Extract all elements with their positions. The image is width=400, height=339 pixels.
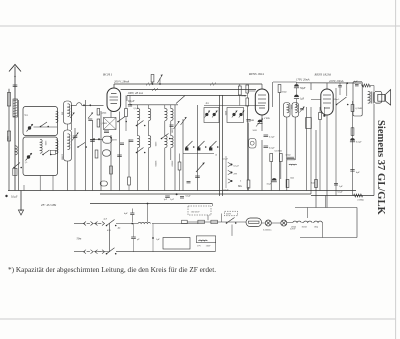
label 50uF bbox=[300, 87, 306, 90]
label 500ohm bbox=[358, 199, 365, 202]
gang box A bbox=[204, 108, 219, 123]
resistor R1 bbox=[7, 93, 10, 107]
switch S17 bbox=[13, 163, 22, 169]
label 1kOhmB bbox=[311, 183, 315, 185]
capacitor C14 bbox=[195, 176, 200, 178]
wire bbox=[116, 223, 138, 225]
label 17V bbox=[197, 246, 201, 248]
svg-text:50kΩ: 50kΩ bbox=[286, 155, 291, 157]
label 4mmF bbox=[206, 103, 210, 105]
label 1uF bbox=[170, 198, 175, 201]
wire bbox=[179, 154, 181, 191]
label 1uFb bbox=[164, 199, 168, 201]
resistor R18 bbox=[319, 113, 322, 120]
shield line bbox=[222, 95, 224, 196]
wire bbox=[306, 107, 308, 191]
wire bbox=[261, 140, 263, 191]
svg-text:0,1μF: 0,1μF bbox=[134, 108, 140, 110]
wire bbox=[197, 105, 199, 191]
connector P1 bbox=[84, 222, 94, 226]
label 2 bbox=[240, 180, 242, 183]
ecap 0,5uF bbox=[350, 138, 355, 142]
trimmer C28 bbox=[88, 113, 93, 121]
wire bbox=[74, 128, 76, 191]
switch S4 bbox=[117, 117, 127, 123]
gang box B bbox=[227, 108, 244, 123]
fuse F2 bbox=[198, 220, 205, 223]
wire bbox=[346, 83, 348, 96]
svg-text:2 mA: 2 mA bbox=[264, 117, 270, 120]
capacitor C1 bbox=[13, 85, 18, 87]
capacitor C29 bbox=[170, 125, 174, 126]
label 5000c bbox=[253, 130, 258, 132]
wire bbox=[170, 121, 172, 136]
dot j3 bbox=[346, 82, 348, 84]
trimmer C4 bbox=[26, 153, 33, 161]
wire bbox=[261, 115, 263, 131]
svg-text:0,5MΩ: 0,5MΩ bbox=[101, 123, 108, 125]
zigzag R11 bbox=[287, 157, 295, 160]
svg-text:*) Kapazität der abgeschirmte: *) Kapazität der abgeschirmten Leitung, … bbox=[8, 265, 216, 274]
svg-text:1kΩ: 1kΩ bbox=[290, 178, 294, 180]
trimmer C12 bbox=[232, 111, 238, 118]
trimmer C33 bbox=[174, 121, 180, 129]
coil L2 bbox=[15, 146, 17, 155]
transformer T4 core bbox=[371, 92, 373, 104]
page rule top bbox=[0, 25, 400, 27]
switch S16 bbox=[161, 134, 171, 140]
label a bbox=[216, 154, 218, 157]
wire bbox=[239, 84, 241, 106]
label 220V bbox=[290, 228, 296, 231]
capacitor C10 bbox=[103, 136, 118, 143]
switch S15 bbox=[136, 148, 146, 154]
trimmer C35 bbox=[300, 107, 305, 113]
svg-text:5000: 5000 bbox=[44, 141, 46, 146]
wire bbox=[300, 237, 357, 239]
switch S14 bbox=[136, 121, 146, 127]
svg-text:17V: 17V bbox=[197, 246, 201, 248]
label 0,1uF bbox=[128, 100, 135, 103]
dot j4 bbox=[110, 137, 112, 139]
wire bbox=[8, 89, 10, 191]
label 0,1B22a bbox=[263, 229, 272, 232]
ecap 1uF bbox=[294, 95, 299, 99]
wire bbox=[70, 105, 72, 130]
value 500L bbox=[6, 136, 8, 140]
resistor R19 bbox=[351, 128, 354, 136]
wire bbox=[152, 224, 154, 253]
wire bbox=[164, 121, 166, 136]
coil can K3 bbox=[249, 139, 257, 149]
label 0,5uF bbox=[356, 141, 362, 144]
label uF bbox=[137, 238, 140, 241]
label 4uF2 bbox=[356, 171, 360, 174]
wire bbox=[92, 120, 94, 191]
dot cap bbox=[323, 107, 325, 117]
wire bbox=[322, 223, 324, 238]
svg-text:(40Ω): (40Ω) bbox=[101, 112, 107, 115]
capacitor C25 bbox=[334, 184, 338, 186]
coil T3a winding bbox=[287, 104, 289, 112]
svg-text:0,25MΩ: 0,25MΩ bbox=[275, 151, 283, 153]
svg-text:(500Ω): (500Ω) bbox=[358, 199, 365, 202]
wire bbox=[373, 104, 375, 196]
svg-text:μF: μF bbox=[137, 238, 140, 241]
wire bbox=[90, 138, 103, 140]
capacitor C22 bbox=[130, 209, 134, 223]
transformer T4 primary bbox=[368, 91, 370, 103]
heater coil La bbox=[293, 221, 301, 222]
hatch bbox=[210, 83, 216, 86]
wire bbox=[207, 215, 209, 220]
coil can K1 bbox=[64, 101, 72, 124]
label 220V 20mA bbox=[329, 79, 344, 84]
svg-text:5000: 5000 bbox=[154, 142, 156, 147]
label 1uF bbox=[156, 238, 160, 241]
wire bbox=[133, 224, 135, 253]
capacitor C18 bbox=[355, 85, 359, 86]
wire bbox=[119, 112, 121, 191]
wire bbox=[23, 185, 25, 191]
resistor R2 bbox=[97, 109, 100, 116]
wire bbox=[183, 153, 214, 155]
label 0,1uF bbox=[11, 196, 18, 199]
coil L5 bbox=[56, 140, 58, 154]
wire bbox=[262, 222, 265, 224]
capacitor C26 bbox=[120, 143, 124, 144]
capacitor C16 bbox=[264, 146, 269, 148]
resistor R12 bbox=[286, 180, 289, 188]
svg-text:170V, 20mA: 170V, 20mA bbox=[296, 79, 310, 82]
coil L12 bbox=[138, 222, 151, 223]
wire bbox=[129, 96, 131, 105]
label 50kOhm bbox=[286, 155, 291, 157]
switch S12 bbox=[106, 248, 117, 255]
label 0,5MOhm2 bbox=[101, 123, 108, 125]
label 1,5 bbox=[25, 162, 29, 164]
wire bbox=[137, 148, 139, 191]
label MG bbox=[238, 185, 242, 188]
page rule right bbox=[395, 0, 397, 339]
coil L8 bbox=[68, 104, 70, 117]
resistor R7 bbox=[246, 98, 249, 106]
lamp E1 bbox=[265, 220, 271, 226]
label 110/125V bbox=[188, 206, 211, 215]
wire bbox=[326, 115, 328, 208]
trimmer C34 bbox=[181, 117, 187, 125]
resistor R9 bbox=[270, 154, 273, 162]
wire bbox=[302, 222, 323, 224]
resistor R22 bbox=[178, 162, 181, 170]
svg-text:20000: 20000 bbox=[61, 154, 63, 161]
choke outline bbox=[353, 82, 362, 117]
bus wire bbox=[8, 190, 356, 192]
wire bbox=[126, 96, 128, 102]
svg-text:2: 2 bbox=[240, 180, 242, 183]
svg-text:RENS 1823d: RENS 1823d bbox=[314, 73, 332, 77]
label 170V bbox=[296, 79, 310, 82]
wire bbox=[34, 126, 58, 128]
svg-text:2μF: 2μF bbox=[104, 219, 108, 221]
label 0,1uF bbox=[234, 166, 240, 168]
resistor R4 bbox=[95, 150, 98, 158]
wire bbox=[148, 105, 150, 109]
wire bbox=[326, 83, 328, 89]
capacitor C20 bbox=[350, 170, 354, 172]
tube U2 envelope bbox=[255, 89, 268, 115]
wire bbox=[270, 162, 272, 191]
label 1uF bbox=[339, 185, 343, 188]
svg-text:4μF: 4μF bbox=[356, 171, 360, 174]
coil L10 bbox=[289, 163, 297, 166]
coil L9 bbox=[68, 134, 70, 150]
wire bbox=[221, 214, 223, 223]
svg-text:Siemens 37 GL/GLK: Siemens 37 GL/GLK bbox=[375, 120, 386, 216]
label 50uF2 bbox=[267, 184, 272, 186]
svg-text:4μμ: 4μμ bbox=[206, 103, 210, 105]
connector P2 bbox=[95, 222, 105, 226]
wire bbox=[247, 90, 255, 92]
wire bbox=[128, 139, 130, 190]
coil T3b2 bbox=[165, 136, 167, 148]
wire bbox=[85, 100, 87, 191]
wire bbox=[100, 111, 102, 191]
label 0,25MOhm bbox=[275, 151, 283, 153]
switch S10 bbox=[336, 97, 349, 105]
svg-text:1μF: 1μF bbox=[300, 98, 305, 101]
wire bbox=[310, 107, 312, 194]
svg-text:1823d: 1823d bbox=[302, 226, 308, 228]
capacitor C23 bbox=[131, 237, 136, 239]
svg-text:220V: 220V bbox=[226, 214, 231, 216]
wire bbox=[246, 93, 248, 191]
tube U3 label RENS 1823d bbox=[314, 73, 332, 77]
triode diag bbox=[104, 118, 117, 130]
resistor R6 bbox=[246, 85, 249, 93]
svg-text:30000: 30000 bbox=[154, 161, 156, 168]
coil can K2 bbox=[64, 130, 72, 161]
svg-text:0,5μF: 0,5μF bbox=[356, 141, 362, 144]
wire bbox=[339, 83, 341, 95]
capacitor C10b bbox=[100, 181, 107, 186]
label 6 bbox=[282, 92, 287, 94]
label 0,5MOhm bbox=[356, 108, 363, 110]
label 470 bbox=[107, 229, 112, 232]
wire bbox=[204, 105, 265, 107]
svg-text:1000: 1000 bbox=[224, 111, 226, 116]
switch S3 bbox=[77, 143, 87, 148]
svg-text:0,1μF: 0,1μF bbox=[234, 166, 240, 168]
wire bbox=[319, 107, 321, 191]
resistor R23 bbox=[306, 118, 312, 129]
heater coil Lb bbox=[304, 221, 312, 222]
trimmer C3 bbox=[27, 124, 34, 132]
capacitor C15 bbox=[264, 135, 269, 137]
rect loop bbox=[163, 238, 190, 250]
capacitor C24 bbox=[246, 120, 250, 122]
svg-text:4μF: 4μF bbox=[124, 212, 128, 215]
label 1kOhm bbox=[290, 178, 294, 180]
wire bbox=[170, 105, 172, 109]
wire bbox=[94, 251, 110, 253]
wire bbox=[152, 82, 154, 84]
wire bbox=[127, 95, 247, 97]
wire bbox=[211, 204, 213, 207]
ecap 50uF bbox=[294, 84, 299, 88]
wire bbox=[280, 162, 282, 180]
wire bbox=[187, 221, 246, 223]
capacitor C7 bbox=[128, 105, 132, 107]
label mp bbox=[25, 115, 29, 117]
svg-text:1824: 1824 bbox=[314, 226, 318, 228]
barretter U4 bbox=[246, 218, 262, 227]
wire bbox=[311, 99, 321, 101]
wire bbox=[130, 104, 178, 106]
wire bbox=[352, 101, 354, 196]
connector P3 bbox=[84, 250, 94, 254]
wire bbox=[121, 89, 256, 91]
wire bbox=[94, 223, 98, 225]
antenna bbox=[9, 65, 21, 80]
wire bbox=[286, 117, 288, 191]
wire bbox=[147, 203, 149, 222]
capacitor C21 bbox=[165, 196, 170, 198]
svg-text:0,5MΩ: 0,5MΩ bbox=[356, 108, 363, 110]
wire bbox=[272, 82, 274, 107]
coil L4 bbox=[40, 139, 42, 153]
tube U1 envelope bbox=[107, 88, 121, 112]
svg-text:0,1μF: 0,1μF bbox=[223, 159, 229, 161]
svg-text:30000: 30000 bbox=[170, 161, 172, 168]
svg-text:0,1μF: 0,1μF bbox=[128, 100, 135, 103]
trimmer C13b bbox=[196, 163, 205, 173]
wire bbox=[164, 105, 166, 109]
wire bbox=[222, 225, 232, 236]
coil T3b winding bbox=[295, 104, 297, 112]
svg-text:50μF: 50μF bbox=[300, 87, 306, 90]
zigzag R13 bbox=[362, 84, 371, 87]
lamp E2 bbox=[281, 220, 287, 226]
wire bbox=[164, 148, 166, 191]
dot j2 bbox=[152, 237, 154, 239]
tube U1 label BCH 1 bbox=[103, 73, 113, 77]
value 1000 bbox=[290, 105, 292, 110]
speaker LS coil box bbox=[374, 91, 382, 103]
trimmer C11b bbox=[212, 111, 218, 118]
label 7 bbox=[242, 96, 247, 98]
wire bbox=[137, 121, 139, 136]
label ZW bbox=[234, 174, 238, 176]
svg-text:RENS 1824: RENS 1824 bbox=[248, 72, 264, 76]
svg-text:4Ω: 4Ω bbox=[118, 228, 121, 230]
resistor R5 bbox=[110, 166, 113, 174]
capacitor C8 bbox=[129, 140, 134, 142]
wire bbox=[110, 135, 112, 191]
wire bbox=[114, 83, 262, 85]
svg-text:0,1B22a: 0,1B22a bbox=[263, 229, 272, 232]
tube U1 grid bbox=[110, 94, 119, 104]
dot j1 bbox=[131, 223, 133, 225]
wire bbox=[67, 124, 69, 130]
wire bbox=[371, 86, 375, 92]
coil T2a bbox=[149, 109, 151, 121]
value 30000b bbox=[170, 161, 172, 168]
label 2MOhm bbox=[250, 120, 255, 122]
capacitor C30 bbox=[104, 131, 109, 133]
ground bbox=[18, 191, 23, 216]
fuse F1 bbox=[182, 220, 188, 223]
wire bbox=[294, 117, 296, 160]
zigzag R15 bbox=[354, 194, 363, 197]
value 30000 bbox=[154, 161, 156, 168]
value 5000 bbox=[154, 142, 156, 147]
svg-text:MG: MG bbox=[238, 185, 242, 188]
wire bbox=[335, 88, 337, 196]
svg-text:0,5μF: 0,5μF bbox=[338, 192, 344, 194]
svg-text:1μF: 1μF bbox=[170, 198, 175, 201]
resistor R20 bbox=[128, 177, 131, 185]
wire bbox=[109, 224, 111, 252]
coil L6b bbox=[56, 111, 58, 122]
trimmer C12b bbox=[239, 111, 245, 118]
wire bbox=[116, 250, 216, 252]
coil can T3a bbox=[284, 103, 291, 118]
speaker LS magnet bbox=[378, 94, 385, 101]
resistor R14 bbox=[315, 180, 318, 188]
wire bbox=[113, 84, 115, 88]
svg-text:1,5: 1,5 bbox=[25, 162, 29, 164]
component box bbox=[13, 168, 17, 175]
resistor R3 bbox=[125, 109, 128, 117]
switch S9 bbox=[228, 179, 233, 183]
capacitor C21b bbox=[176, 193, 184, 198]
switch S11 bbox=[106, 220, 117, 227]
svg-text:a: a bbox=[216, 154, 218, 157]
svg-text:ZF: 451 kHz: ZF: 451 kHz bbox=[41, 203, 57, 207]
wire bbox=[287, 222, 293, 224]
capacitor C9 bbox=[117, 155, 122, 157]
fuse F3 bbox=[211, 220, 218, 223]
capacitor C17 bbox=[338, 86, 342, 87]
label 110V bbox=[206, 246, 211, 248]
svg-text:(20Ω): (20Ω) bbox=[291, 225, 296, 228]
label 4ohm bbox=[118, 228, 121, 230]
label 220V box bbox=[225, 211, 238, 216]
label 0,3uF bbox=[224, 190, 230, 192]
bus wire bbox=[311, 195, 374, 197]
component box2 bbox=[50, 150, 55, 154]
svg-text:5000: 5000 bbox=[253, 130, 258, 132]
value 1000A bbox=[224, 111, 226, 116]
label 2uF bbox=[104, 219, 108, 221]
svg-text:0,1μF: 0,1μF bbox=[11, 196, 18, 199]
svg-text:1μF: 1μF bbox=[156, 238, 160, 241]
label 0,5uFb bbox=[338, 192, 344, 194]
label 100V 28mA bbox=[128, 91, 143, 96]
wire bbox=[248, 123, 250, 191]
tube U2 label RENS 1824 bbox=[248, 72, 264, 76]
svg-text:1kΩ: 1kΩ bbox=[311, 183, 315, 185]
wire bbox=[148, 148, 150, 191]
wire bbox=[225, 156, 227, 188]
svg-text:ZW: ZW bbox=[234, 174, 238, 176]
wire bbox=[315, 130, 317, 208]
wire bbox=[272, 222, 281, 224]
value 2000 bbox=[170, 128, 172, 133]
switch S8 bbox=[228, 170, 233, 174]
label 0,5uF bbox=[269, 147, 275, 150]
